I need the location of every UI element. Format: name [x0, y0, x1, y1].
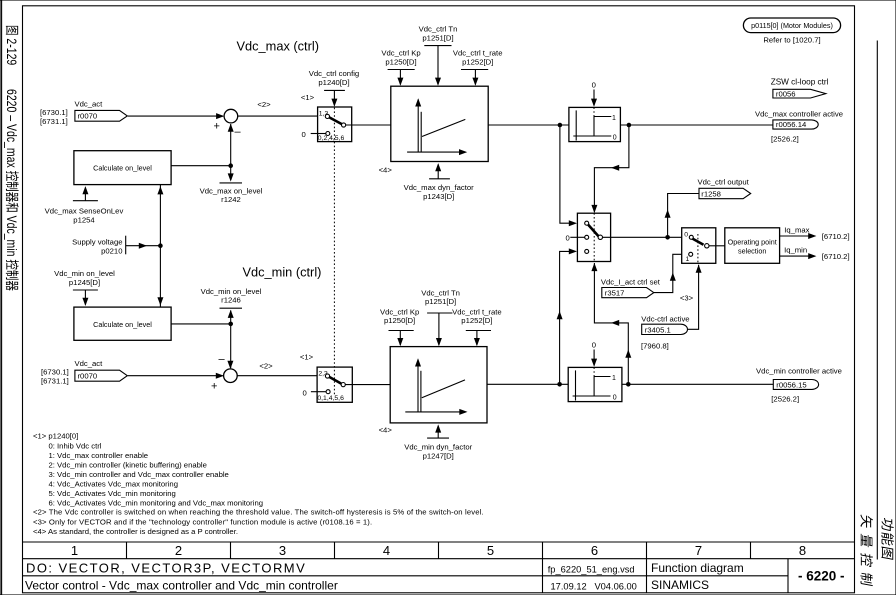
- svg-text:0: 0: [302, 130, 306, 139]
- parameter input p1245: [54, 269, 115, 306]
- svg-text:p1251[D]: p1251[D]: [425, 297, 456, 306]
- svg-text:Vector control - Vdc_max contr: Vector control - Vdc_max controller and …: [25, 579, 338, 593]
- left margin title 6220: [4, 89, 20, 291]
- parameter stem p1252 (min): [466, 331, 491, 347]
- svg-text:Vdc-ctrl active: Vdc-ctrl active: [641, 314, 689, 323]
- node ref [6710.2] bottom: [822, 252, 850, 261]
- svg-text:2-129: 2-129: [4, 38, 20, 65]
- svg-text:r1258: r1258: [701, 189, 721, 198]
- node ref [2526.2] bottom: [771, 395, 799, 404]
- svg-text:1: 1: [686, 256, 690, 263]
- svg-text:p1243[D]: p1243[D]: [423, 192, 454, 201]
- left margin caption 图 2-129: [4, 26, 20, 65]
- footer column numbers: [71, 543, 806, 558]
- node label 4 (min): [379, 426, 393, 435]
- label Vdc_max on_level r1242: [200, 187, 263, 205]
- comparator block max active: [569, 107, 621, 141]
- svg-text:<2>: <2>: [257, 100, 271, 109]
- svg-text:Calculate on_level: Calculate on_level: [93, 320, 152, 329]
- svg-text:[6731.1]: [6731.1]: [40, 117, 68, 126]
- svg-text:[7960.8]: [7960.8]: [641, 342, 669, 351]
- switch SW_max: [318, 107, 352, 142]
- label Iq_min: [784, 246, 807, 255]
- svg-text:1: 1: [612, 115, 616, 122]
- svg-text:Vdc_min on_level: Vdc_min on_level: [54, 269, 115, 278]
- svg-text:0: 0: [592, 341, 596, 350]
- svg-text:Refer to [1020.7]: Refer to [1020.7]: [763, 36, 820, 45]
- footer function diagram cell: [651, 561, 744, 575]
- svg-text:+: +: [214, 120, 220, 132]
- svg-text:2: 2: [175, 543, 182, 558]
- svg-text:1: Vdc_max controller enable: 1: Vdc_max controller enable: [49, 451, 149, 460]
- svg-text:p1252[D]: p1252[D]: [462, 57, 493, 66]
- svg-text:Vdc_I_act ctrl set: Vdc_I_act ctrl set: [601, 277, 661, 286]
- svg-text:<4>: <4>: [379, 426, 393, 435]
- display flag r0056.15: [773, 380, 818, 390]
- svg-text:r1246: r1246: [221, 296, 241, 305]
- node ref [6730.1][6731.1] bottom: [41, 368, 69, 386]
- wire 0 into comparator max: [591, 90, 597, 107]
- switch SW_max 0-input: [302, 130, 330, 139]
- svg-text:Vdc_min controller active: Vdc_min controller active: [756, 367, 842, 376]
- wire SW_max to PI_max: [346, 124, 391, 126]
- selector switch SW_sel: [577, 213, 610, 261]
- svg-text:17.09.12 V04.06.00: 17.09.12 V04.06.00: [551, 581, 637, 591]
- parameter stem p1252 (max): [461, 70, 488, 86]
- label 0 above comparator max: [592, 81, 596, 90]
- wire junction C down to SW_sel input1: [560, 125, 577, 226]
- node ref [6710.2] top: [822, 232, 850, 241]
- svg-text:2: Vdc_min controller (kinetic: 2: Vdc_min controller (kinetic buffering…: [49, 461, 207, 470]
- svg-text:Vdc_max (ctrl): Vdc_max (ctrl): [237, 39, 319, 54]
- svg-text:Vdc_max controller active: Vdc_max controller active: [755, 110, 843, 119]
- wire junction B up to r1246 tap: [228, 310, 234, 324]
- block PI controller max: [391, 86, 488, 161]
- svg-text:1: 1: [71, 543, 78, 558]
- footer SINAMICS cell: [651, 578, 709, 592]
- svg-text:[2526.2]: [2526.2]: [771, 395, 799, 404]
- svg-text:r0070: r0070: [78, 111, 98, 120]
- svg-text:[6730.1]: [6730.1]: [40, 108, 68, 117]
- svg-text:4: 4: [383, 543, 390, 558]
- wire junction D to SW_sel top control: [591, 125, 629, 213]
- label Vdc_ctrl Tn p1251 (min): [421, 288, 460, 306]
- svg-text:0: 0: [613, 395, 617, 402]
- svg-text:0: Inhib Vdc ctrl: 0: Inhib Vdc ctrl: [49, 442, 102, 451]
- label Vdc_max controller active: [755, 110, 843, 119]
- wire comparator max to r0056.14: [620, 124, 773, 126]
- svg-text:0: 0: [566, 233, 570, 242]
- wire junction E up to SW_sel input3: [557, 248, 577, 384]
- svg-text:selection: selection: [738, 247, 766, 256]
- svg-text:1: 1: [612, 375, 616, 382]
- right inner margin line: [876, 41, 878, 560]
- svg-text:r3517: r3517: [605, 289, 625, 298]
- tap bar r1246: [220, 307, 243, 309]
- svg-text:Function diagram: Function diagram: [651, 561, 744, 575]
- svg-text:0: 0: [303, 388, 307, 397]
- plus sign S1: [214, 120, 220, 132]
- switch SW_out lever: [693, 239, 710, 248]
- wire link calc1 calc2: [157, 185, 163, 308]
- svg-text:Vdc_act: Vdc_act: [75, 359, 104, 368]
- node label 2 bottom: [259, 362, 273, 371]
- svg-text:p1247[D]: p1247[D]: [423, 451, 454, 460]
- junction dot supply: [158, 243, 163, 248]
- svg-text:p1250[D]: p1250[D]: [384, 316, 415, 325]
- svg-text:fp_6220_51_eng.vsd: fp_6220_51_eng.vsd: [548, 564, 635, 574]
- parameter stem p1251 (min): [427, 313, 452, 346]
- wire calc2 to junction B: [171, 323, 231, 325]
- label Vdc_ctrl Kp p1250 (max): [381, 49, 420, 67]
- svg-text:6: Vdc_Activates Vdc_min monit: 6: Vdc_Activates Vdc_min monitoring and …: [49, 498, 264, 507]
- svg-text:Iq_max: Iq_max: [784, 225, 809, 234]
- wire Iq_max out: [780, 233, 817, 239]
- svg-text:Supply voltage: Supply voltage: [72, 238, 122, 247]
- switch SW_sel lever: [588, 225, 603, 240]
- svg-text:Calculate on_level: Calculate on_level: [93, 163, 152, 172]
- plus sign S2: [211, 380, 217, 392]
- summing junction S2: [224, 369, 238, 383]
- svg-text:0,2,4,5,6: 0,2,4,5,6: [318, 135, 345, 142]
- svg-text:[6730.1]: [6730.1]: [41, 368, 69, 377]
- node label 1 bottom: [300, 353, 314, 362]
- wire comparator min to r0056.15: [622, 383, 773, 385]
- svg-text:0,1,4,5,6: 0,1,4,5,6: [317, 395, 344, 402]
- wire junction A down to r1242 tap: [228, 166, 234, 182]
- svg-text:Vdc_min: Vdc_min: [4, 216, 20, 257]
- parameter input p1254: [45, 186, 124, 224]
- wire r3517 to SW_out input1: [654, 254, 689, 292]
- node label 2 top: [257, 100, 271, 109]
- block Calculate on_level (max): [74, 151, 171, 185]
- switch SW_out: [682, 228, 716, 263]
- label Vdc_ctrl output: [698, 178, 750, 187]
- svg-text:p0210: p0210: [101, 246, 122, 255]
- svg-text:p1252[D]: p1252[D]: [461, 316, 492, 325]
- wire junction B down to S2 minus: [227, 324, 233, 369]
- wire junction F to SW_sel bottom control: [591, 263, 631, 384]
- wire r0070 to summing point: [128, 113, 225, 119]
- node ref [6730.1][6731.1] top: [40, 108, 68, 126]
- svg-text:Vdc_ctrl Kp: Vdc_ctrl Kp: [380, 307, 419, 316]
- connector flag r0070 top: [75, 110, 127, 121]
- wire r3405.1 to SW_out control: [687, 265, 701, 330]
- label Vdc_ctrl t_rate p1252 (max): [453, 49, 503, 67]
- minus sign S1: [235, 126, 242, 138]
- connector flag r3517: [602, 288, 654, 298]
- svg-text:<4>: <4>: [379, 166, 393, 175]
- svg-text:–: –: [235, 126, 242, 138]
- p0115 pill (Motor Modules): [743, 18, 840, 33]
- label Vdc-ctrl active: [641, 314, 689, 323]
- svg-text:p1250[D]: p1250[D]: [385, 57, 416, 66]
- svg-text:<1>: <1>: [301, 93, 315, 102]
- svg-text:Vdc_ctrl t_rate: Vdc_ctrl t_rate: [452, 307, 502, 316]
- svg-text:<4> As standard, the controlle: <4> As standard, the controller is desig…: [33, 527, 238, 536]
- svg-text:4: Vdc_Activates Vdc_max monit: 4: Vdc_Activates Vdc_max monitoring: [49, 479, 178, 488]
- svg-text:Iq_min: Iq_min: [784, 246, 807, 255]
- svg-text:- 6220 -: - 6220 -: [798, 569, 845, 584]
- svg-text:Operating point: Operating point: [728, 237, 777, 246]
- svg-text:Vdc_ctrl Tn: Vdc_ctrl Tn: [421, 288, 460, 297]
- wire Iq_min out: [780, 253, 817, 259]
- right margin label 功能图: [881, 517, 893, 560]
- control dotted line p1240: [333, 108, 335, 396]
- tap bar r1242: [220, 182, 243, 184]
- svg-text:8: 8: [799, 543, 806, 558]
- svg-text:<2> The Vdc controller is swit: <2> The Vdc controller is switched on wh…: [33, 508, 484, 517]
- svg-text:<2>: <2>: [259, 362, 273, 371]
- block Calculate on_level (min): [74, 307, 171, 340]
- svg-text:5: Vdc_Activates Vdc_min monit: 5: Vdc_Activates Vdc_min monitoring: [49, 489, 176, 498]
- label Vdc_ctrl config p1240: [309, 69, 359, 87]
- svg-text:7: 7: [695, 543, 702, 558]
- svg-text:SINAMICS: SINAMICS: [651, 578, 709, 592]
- title Vdc_max (ctrl): [237, 39, 319, 54]
- label Vdc_min controller active: [756, 367, 842, 376]
- footer fp number cell: [798, 569, 845, 584]
- label ZSW cl-loop ctrl: [771, 78, 829, 87]
- connector flag r0056: [773, 89, 826, 98]
- svg-text:0: 0: [592, 81, 596, 90]
- svg-text:+: +: [211, 380, 217, 392]
- wire r0070 to S2: [128, 373, 224, 379]
- svg-text:Vdc_act: Vdc_act: [75, 100, 104, 109]
- footer DO line: [26, 561, 306, 576]
- svg-text:0: 0: [684, 231, 688, 238]
- label Iq_max: [784, 225, 809, 234]
- PI min graph: [405, 358, 467, 415]
- label Vdc_ctrl Kp p1250 (min): [380, 307, 419, 325]
- svg-text:–: –: [219, 354, 226, 366]
- svg-text:[2526.2]: [2526.2]: [771, 134, 799, 143]
- svg-text:[6710.2]: [6710.2]: [822, 252, 850, 261]
- node label 3: [680, 294, 694, 303]
- svg-text:Vdc_ctrl Tn: Vdc_ctrl Tn: [419, 25, 458, 34]
- parameter input p1243 dyn_factor (max): [404, 163, 475, 201]
- svg-text:r3405.1: r3405.1: [645, 325, 671, 334]
- svg-text:5: 5: [487, 543, 494, 558]
- connector flag r1258: [699, 188, 751, 198]
- page left edge bar: [0, 0, 2, 595]
- junction dot E: [557, 382, 562, 387]
- svg-text:Vdc_ctrl Kp: Vdc_ctrl Kp: [381, 49, 420, 58]
- svg-text:Vdc_ctrl output: Vdc_ctrl output: [698, 178, 750, 187]
- footer title line: [25, 579, 338, 593]
- wire S2 to switch min: [237, 375, 325, 377]
- footer vsd cell: [548, 564, 635, 574]
- footer date cell: [551, 581, 637, 591]
- switch SW_max lever: [325, 114, 345, 127]
- wire SW_sel output: [602, 236, 689, 238]
- svg-text:p1245[D]: p1245[D]: [69, 278, 100, 287]
- svg-text:Vdc_min (ctrl): Vdc_min (ctrl): [243, 265, 322, 280]
- wire SW_out to operating point: [709, 245, 725, 247]
- svg-text:6220 – Vdc_max: 6220 – Vdc_max: [4, 89, 20, 168]
- label Vdc_act top: [75, 100, 104, 109]
- block PI controller min: [390, 347, 487, 423]
- svg-text:r0056.15: r0056.15: [776, 381, 806, 390]
- connector flag r0070 bottom: [75, 370, 127, 381]
- wire PI_min output: [487, 383, 568, 385]
- svg-text:3: 3: [279, 543, 286, 558]
- switch SW_min 0-input: [303, 388, 331, 397]
- svg-text:Vdc_max SenseOnLev: Vdc_max SenseOnLev: [45, 207, 124, 216]
- wire S1 to switch: [238, 115, 326, 117]
- svg-text:DO: VECTOR, VECTOR3P, VECTORMV: DO: VECTOR, VECTOR3P, VECTORMV: [26, 561, 306, 576]
- junction dot D: [627, 123, 632, 128]
- wire junction G to r1258: [665, 194, 699, 238]
- svg-text:<1> p1240[0]: <1> p1240[0]: [33, 432, 78, 441]
- footnote 4: [33, 527, 238, 536]
- supply voltage p0210 input: [72, 236, 160, 256]
- label 0 above comparator min: [592, 341, 596, 350]
- display flag r3405.1: [642, 324, 688, 334]
- svg-text:ZSW cl-loop ctrl: ZSW cl-loop ctrl: [771, 78, 829, 87]
- label Vdc_ctrl Tn p1251 (max): [419, 25, 458, 43]
- node ref [7960.8]: [641, 342, 669, 351]
- junction dot A: [228, 163, 233, 168]
- node ref [2526.2] top: [771, 134, 799, 143]
- parameter stem p1250 (max): [388, 70, 415, 86]
- label Vdc_I_act ctrl set: [601, 277, 661, 286]
- svg-text:p0115[0] (Motor Modules): p0115[0] (Motor Modules): [751, 21, 833, 30]
- svg-text:<3> Only for VECTOR and if the: <3> Only for VECTOR and if the "technolo…: [33, 517, 372, 526]
- junction dot F: [626, 382, 631, 387]
- svg-text:Vdc_ctrl config: Vdc_ctrl config: [309, 69, 359, 78]
- wire 0 into comparator min: [591, 350, 597, 367]
- svg-text:r0056.14: r0056.14: [776, 120, 807, 129]
- comparator block min active: [568, 367, 622, 401]
- svg-text:Vdc_min dyn_factor: Vdc_min dyn_factor: [404, 443, 472, 452]
- refer note: [763, 36, 820, 45]
- right margin label 矢量控制: [860, 514, 873, 586]
- svg-text:[6710.2]: [6710.2]: [822, 232, 850, 241]
- svg-text:3: Vdc_min controller and Vdc_: 3: Vdc_min controller and Vdc_max contro…: [49, 470, 229, 479]
- switch SW_min lever: [325, 374, 345, 387]
- svg-text:p1240[D]: p1240[D]: [318, 78, 349, 87]
- footnote 2: [33, 508, 484, 517]
- parameter stem p1250 (min): [389, 331, 414, 347]
- footnote 1: [33, 432, 263, 508]
- summing junction S1: [224, 109, 238, 123]
- svg-text:p1251[D]: p1251[D]: [422, 33, 453, 42]
- junction dot C: [558, 123, 563, 128]
- parameter stem p1240: [324, 90, 345, 106]
- node label 4 (max): [379, 166, 393, 175]
- svg-text:Vdc_ctrl t_rate: Vdc_ctrl t_rate: [453, 49, 503, 58]
- svg-text:r1242: r1242: [221, 195, 241, 204]
- parameter stem p1251 (max): [424, 46, 451, 86]
- svg-text:0: 0: [613, 135, 617, 142]
- wire SW_min to PI_min: [345, 384, 390, 386]
- display flag r0056.14: [773, 120, 818, 129]
- footer table grid: [23, 542, 855, 593]
- block operating point selection: [725, 228, 780, 263]
- svg-text:r0056: r0056: [776, 89, 796, 98]
- wire junction A up to S1 minus: [228, 124, 234, 166]
- parameter input p1247 dyn_factor (min): [404, 424, 472, 460]
- svg-text:[6731.1]: [6731.1]: [41, 376, 69, 385]
- junction dot B: [228, 322, 233, 327]
- footnote 3: [33, 517, 372, 526]
- svg-text:r0070: r0070: [78, 372, 98, 381]
- svg-text:p1254: p1254: [73, 215, 95, 224]
- minus sign S2: [219, 354, 226, 366]
- node label 1 top: [301, 93, 315, 102]
- PI max graph: [407, 98, 467, 155]
- svg-text:Vdc_max dyn_factor: Vdc_max dyn_factor: [404, 183, 475, 192]
- wire PI_max output: [488, 124, 569, 126]
- switch SW_sel 0-input: [566, 233, 585, 242]
- svg-text:6: 6: [591, 543, 598, 558]
- label Vdc_act bottom: [75, 359, 104, 368]
- label Vdc_ctrl t_rate p1252 (min): [452, 307, 502, 325]
- svg-text:<3>: <3>: [680, 294, 694, 303]
- switch SW_min: [317, 367, 352, 402]
- label Vdc_min on_level r1246: [201, 287, 262, 305]
- junction dot G: [665, 235, 670, 240]
- svg-text:<1>: <1>: [300, 353, 314, 362]
- title Vdc_min (ctrl): [243, 265, 322, 280]
- wire calc1 to junction: [171, 165, 231, 167]
